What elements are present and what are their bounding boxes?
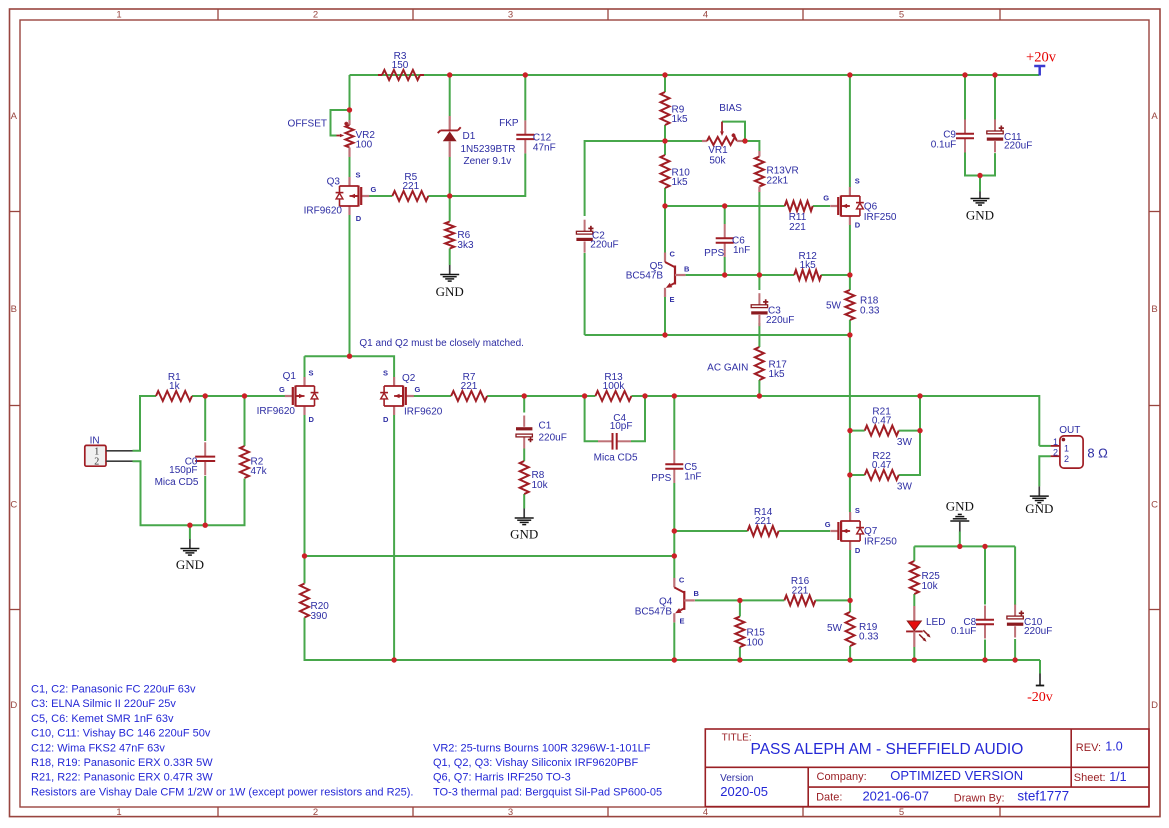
svg-text:3W: 3W — [897, 437, 913, 448]
wire C0 top — [204, 396, 206, 441]
svg-text:10k: 10k — [922, 581, 939, 592]
ground — [1025, 486, 1053, 516]
svg-text:221: 221 — [461, 381, 478, 392]
svg-text:G: G — [825, 520, 831, 529]
svg-text:B: B — [11, 304, 17, 315]
transistor Q1_body — [285, 377, 315, 415]
wire row556 — [305, 555, 675, 557]
wire C2 bottom — [584, 253, 586, 335]
svg-text:100: 100 — [747, 637, 764, 648]
node junction — [847, 657, 852, 662]
wire R9 bottom node y141 — [664, 125, 666, 141]
resistor R13 — [595, 372, 631, 401]
node junction — [757, 272, 762, 277]
diode D1 zener — [438, 116, 516, 167]
node junction — [847, 332, 852, 337]
wire R10 — [664, 141, 666, 155]
svg-text:Q7: Q7 — [864, 526, 878, 537]
svg-text:GND: GND — [436, 284, 464, 299]
wire Q5 collector — [664, 206, 666, 253]
svg-text:Q1, Q2, Q3: Vishay Siliconix I: Q1, Q2, Q3: Vishay Siliconix IRF9620PBF — [433, 757, 638, 769]
wire C8 top — [984, 546, 986, 604]
wire bias loop — [722, 122, 745, 141]
node junction — [992, 72, 997, 77]
svg-text:GND: GND — [176, 557, 204, 572]
wire OUT pin1 — [1039, 445, 1050, 447]
svg-text:0.33: 0.33 — [860, 305, 880, 316]
node junction — [847, 598, 852, 603]
wire OUT pin2 to gnd — [1039, 456, 1050, 486]
wire C6 bottom — [724, 257, 726, 275]
node junction — [582, 393, 587, 398]
wire C10 top — [1014, 546, 1016, 605]
wire R1 to gates — [192, 395, 285, 397]
wire R21 right — [899, 430, 920, 432]
wire R25 top — [913, 546, 915, 561]
svg-text:Resistors are Vishay Dale CFM: Resistors are Vishay Dale CFM 1/2W or 1W… — [31, 786, 413, 798]
svg-text:D: D — [10, 700, 17, 711]
svg-text:5: 5 — [899, 807, 904, 818]
svg-text:Date:: Date: — [816, 792, 842, 804]
wire C9/C11 gnd row — [965, 153, 995, 176]
resistor R6 — [445, 222, 474, 251]
svg-text:1: 1 — [116, 807, 121, 818]
svg-text:GND: GND — [946, 498, 974, 513]
svg-text:10pF: 10pF — [610, 421, 633, 432]
svg-text:150pF: 150pF — [169, 465, 197, 476]
node junction — [672, 393, 677, 398]
node junction — [757, 393, 762, 398]
wire R2 top — [244, 396, 246, 446]
svg-text:C5, C6: Kemet SMR 1nF 63v: C5, C6: Kemet SMR 1nF 63v — [31, 713, 174, 725]
wire C5 top — [673, 396, 675, 450]
svg-text:C: C — [10, 500, 17, 511]
transistor Q3 — [304, 171, 377, 224]
transistor Q6_body — [830, 187, 860, 225]
wire R7 to C1 — [487, 395, 595, 397]
svg-text:2: 2 — [313, 807, 318, 818]
wire R14 to Q7 gate — [779, 530, 831, 532]
transistor Q2 — [380, 369, 443, 424]
svg-text:221: 221 — [792, 586, 809, 597]
resistor R9 — [661, 92, 689, 125]
svg-text:IRF9620: IRF9620 — [404, 407, 443, 418]
wire R15 bottom — [739, 647, 741, 660]
node junction — [187, 523, 192, 528]
svg-text:IN: IN — [90, 436, 100, 447]
node junction — [847, 472, 852, 477]
wire C11 top — [994, 75, 996, 120]
wire LED bottom — [913, 647, 915, 660]
node junction — [662, 203, 667, 208]
svg-text:TITLE:: TITLE: — [722, 733, 752, 744]
capacitor C3 — [751, 293, 768, 326]
svg-text:BC547B: BC547B — [635, 606, 673, 617]
wire node141 to VR1 — [665, 140, 702, 142]
wire C4 right loop — [631, 396, 645, 441]
wire gnd row — [190, 479, 245, 526]
svg-text:1k: 1k — [169, 381, 181, 392]
node junction — [722, 203, 727, 208]
wire -20v drop — [1039, 660, 1041, 674]
svg-text:E: E — [680, 616, 685, 625]
svg-text:Q6, Q7: Harris IRF250 TO-3: Q6, Q7: Harris IRF250 TO-3 — [433, 772, 571, 784]
svg-text:2: 2 — [94, 457, 99, 468]
notes text block — [31, 684, 662, 799]
svg-text:Version: Version — [720, 773, 753, 784]
power flag +20v — [1026, 49, 1057, 75]
svg-text:C: C — [679, 576, 685, 585]
resistor R2 — [240, 446, 268, 478]
node junction — [662, 332, 667, 337]
node junction — [917, 428, 922, 433]
node junction — [203, 523, 208, 528]
svg-text:3: 3 — [508, 9, 513, 20]
svg-text:Mica CD5: Mica CD5 — [155, 477, 199, 488]
svg-text:3W: 3W — [897, 482, 913, 493]
wire R19 bottom — [849, 646, 851, 660]
transistor Q7 — [825, 506, 897, 555]
wire gnd mid stem — [959, 532, 961, 547]
capacitor C2 — [576, 220, 593, 253]
svg-text:PPS: PPS — [704, 248, 724, 259]
resistor R18 — [845, 290, 880, 320]
wire R5 to node — [428, 153, 525, 196]
svg-text:LED: LED — [926, 617, 945, 628]
wire node206 row — [665, 205, 785, 207]
wire R6 top — [449, 196, 451, 222]
svg-text:VR2: 25-turns Bourns 100R 3296: VR2: 25-turns Bourns 100R 3296W-1-101LF — [433, 742, 651, 754]
wire R17 bottom — [758, 380, 760, 396]
capacitor C0 — [195, 442, 215, 475]
wire R22 right — [899, 396, 920, 475]
resistor R3 lead stubs — [378, 74, 382, 76]
svg-text:5W: 5W — [827, 623, 843, 634]
transistor Q2_body — [384, 377, 414, 415]
node junction — [347, 107, 352, 112]
svg-text:8 Ω: 8 Ω — [1087, 445, 1108, 460]
wire R18 bottom — [849, 320, 851, 335]
capacitor C6 — [716, 224, 734, 257]
svg-text:220uF: 220uF — [1004, 141, 1032, 152]
resistor R22 — [865, 451, 899, 480]
svg-text:D: D — [855, 221, 861, 230]
resistor R19 — [846, 612, 879, 646]
svg-text:PPS: PPS — [651, 473, 671, 484]
svg-text:2: 2 — [313, 9, 318, 20]
node junction — [917, 393, 922, 398]
svg-text:B: B — [1151, 304, 1157, 315]
svg-text:C1: C1 — [539, 421, 552, 432]
wire feedback row to OUT — [920, 396, 1039, 446]
transistor Q1 — [257, 369, 319, 424]
svg-text:2: 2 — [1053, 447, 1058, 457]
wire C1 to R8 — [523, 449, 525, 462]
svg-text:22k1: 22k1 — [767, 176, 789, 187]
svg-text:IRF9620: IRF9620 — [257, 406, 296, 417]
wire R21 left — [850, 430, 865, 432]
svg-text:C12: Wima FKS2 47nF 63v: C12: Wima FKS2 47nF 63v — [31, 742, 165, 754]
wire IN pin2 down — [133, 461, 190, 525]
svg-text:S: S — [356, 171, 361, 180]
svg-text:D: D — [855, 546, 861, 555]
wire R20 bottom — [305, 618, 1041, 661]
svg-text:BC547B: BC547B — [626, 271, 664, 282]
ground — [966, 192, 994, 223]
wire R25 branch top row — [914, 545, 1015, 547]
wire C4 left loop — [585, 396, 598, 441]
wire Q4 base row — [695, 599, 785, 601]
svg-text:1k5: 1k5 — [672, 177, 689, 188]
svg-text:2020-05: 2020-05 — [720, 784, 768, 799]
svg-text:S: S — [855, 177, 860, 186]
svg-text:PASS ALEPH AM - SHEFFIELD AUDI: PASS ALEPH AM - SHEFFIELD AUDIO — [751, 741, 1024, 758]
wire bias bottom rail — [585, 334, 850, 336]
node junction — [447, 72, 452, 77]
svg-text:0.1uF: 0.1uF — [951, 626, 977, 637]
svg-text:G: G — [279, 385, 285, 394]
svg-text:Drawn By:: Drawn By: — [954, 793, 1005, 805]
wire C3 bottom to R17 crossing rail — [758, 323, 760, 347]
resistor R10 — [661, 155, 691, 188]
svg-text:B: B — [694, 589, 700, 598]
wire R8 to gnd — [523, 494, 525, 509]
svg-text:50k: 50k — [709, 155, 726, 166]
node junction — [737, 657, 742, 662]
svg-text:IRF9620: IRF9620 — [304, 206, 343, 217]
svg-text:220uF: 220uF — [1024, 626, 1052, 637]
resistor R25 — [910, 561, 940, 594]
svg-text:OUT: OUT — [1059, 425, 1080, 436]
node junction — [1012, 657, 1017, 662]
svg-text:1N5239BTR: 1N5239BTR — [461, 144, 516, 155]
svg-text:G: G — [823, 194, 829, 203]
wire R14 row — [674, 530, 747, 532]
svg-text:1.0: 1.0 — [1105, 740, 1122, 754]
svg-text:B: B — [684, 265, 690, 274]
node junction — [672, 553, 677, 558]
node junction — [523, 72, 528, 77]
ground — [176, 539, 204, 572]
transistor Q6 — [823, 177, 897, 230]
node junction — [203, 393, 208, 398]
svg-text:+20v: +20v — [1026, 49, 1057, 65]
wire R20 top — [304, 556, 306, 584]
wire C0 bottom — [204, 476, 206, 525]
resistor R13VR — [755, 151, 799, 192]
transistor Q4 — [674, 578, 695, 623]
svg-text:BIAS: BIAS — [719, 103, 742, 114]
wire R11 to Q6 gate — [813, 205, 830, 207]
wire Q4 emitter down — [673, 623, 675, 661]
svg-text:0.33: 0.33 — [859, 632, 879, 643]
svg-text:220uF: 220uF — [539, 432, 567, 443]
connector OUT — [1051, 425, 1084, 468]
node junction — [347, 354, 352, 359]
svg-text:IRF250: IRF250 — [864, 212, 897, 223]
capacitor C11 — [987, 119, 1004, 152]
svg-text:D1: D1 — [463, 131, 476, 142]
title block — [705, 729, 1149, 807]
wire Q1 source — [304, 356, 306, 377]
node junction — [847, 428, 852, 433]
svg-text:S: S — [855, 506, 860, 515]
wire Q2 drain — [393, 415, 395, 660]
node junction — [957, 544, 962, 549]
svg-text:stef1777: stef1777 — [1017, 789, 1069, 804]
svg-text:D: D — [1151, 700, 1158, 711]
wire D1 top — [449, 75, 451, 116]
wire Q7 source — [849, 475, 851, 512]
svg-text:220uF: 220uF — [590, 239, 618, 250]
svg-text:1nF: 1nF — [684, 472, 701, 483]
resistor R12 — [794, 251, 821, 280]
node junction — [662, 72, 667, 77]
diode LED — [906, 606, 945, 647]
wire C12 top — [524, 75, 526, 120]
resistor R8 — [520, 461, 549, 494]
wire R14 node to Q4 collector node — [673, 531, 675, 556]
svg-text:FKP: FKP — [499, 118, 519, 129]
node junction — [737, 598, 742, 603]
svg-text:3: 3 — [508, 807, 513, 818]
capacitor C1 — [516, 416, 533, 449]
svg-text:R18, R19: Panasonic ERX 0.33R: R18, R19: Panasonic ERX 0.33R 5W — [31, 757, 213, 769]
svg-text:1/1: 1/1 — [1109, 770, 1126, 784]
svg-text:0.1uF: 0.1uF — [931, 139, 957, 150]
node junction — [847, 72, 852, 77]
wire Q3 drain down to Q1/Q2 sources — [305, 215, 350, 356]
capacitor C9 — [956, 120, 974, 153]
resistor R15 — [735, 617, 765, 649]
wire Q4 collector — [673, 556, 675, 578]
wire D1 bottom — [449, 157, 451, 196]
svg-text:Sheet:: Sheet: — [1074, 772, 1106, 784]
wire R25 to LED — [913, 594, 915, 606]
wire VR1 right to R13VR — [742, 141, 759, 151]
svg-text:GND: GND — [966, 208, 994, 223]
resistor R3 — [382, 51, 420, 80]
wire C10 bottom — [1014, 639, 1016, 660]
wire R10 bottom node y206 — [664, 188, 666, 206]
svg-text:390: 390 — [311, 611, 328, 622]
wire C1 top — [523, 396, 525, 413]
svg-text:221: 221 — [789, 222, 806, 233]
wire R12 right — [821, 274, 850, 276]
resistor R5 — [392, 172, 428, 201]
node junction — [447, 193, 452, 198]
svg-text:C: C — [670, 250, 676, 259]
svg-text:S: S — [309, 369, 314, 378]
svg-text:C10, C11: Vishay BC 146 220uF: C10, C11: Vishay BC 146 220uF 50v — [31, 728, 211, 740]
potentiometer VR1 — [702, 122, 742, 167]
svg-text:D: D — [356, 214, 362, 223]
node junction — [672, 657, 677, 662]
svg-text:2: 2 — [1064, 454, 1069, 464]
wire R9 branch — [664, 75, 666, 92]
capacitor C8 — [976, 606, 994, 639]
node junction — [672, 528, 677, 533]
svg-text:-20v: -20v — [1027, 690, 1053, 705]
ground — [436, 265, 464, 299]
svg-text:G: G — [371, 185, 377, 194]
wire C5 bottom to R14 node — [673, 483, 675, 531]
node junction — [722, 272, 727, 277]
node junction — [242, 393, 247, 398]
wire R13 right — [631, 395, 920, 397]
capacitor C10 — [1007, 605, 1024, 638]
capacitor C12 — [516, 120, 534, 153]
connector IN — [85, 436, 133, 468]
svg-text:C1, C2: Panasonic FC 220uF 63v: C1, C2: Panasonic FC 220uF 63v — [31, 684, 196, 696]
node junction — [977, 173, 982, 178]
wire Q6 source — [849, 75, 851, 187]
svg-text:0.47: 0.47 — [872, 416, 892, 427]
resistor R17 — [755, 347, 787, 380]
svg-text:4: 4 — [703, 807, 708, 818]
svg-text:1: 1 — [1064, 443, 1069, 453]
svg-text:REV:: REV: — [1076, 742, 1101, 754]
svg-text:1: 1 — [116, 9, 121, 20]
wire node141 to C2 — [585, 141, 665, 216]
wire offset loop — [331, 110, 350, 136]
node junction — [847, 272, 852, 277]
svg-text:10k: 10k — [532, 480, 549, 491]
wire — [350, 74, 1040, 76]
svg-text:IRF250: IRF250 — [864, 537, 897, 548]
node junction — [302, 553, 307, 558]
potentiometer VR2 — [337, 120, 376, 157]
svg-text:E: E — [670, 295, 675, 304]
wire gnd stem c9c11 — [979, 176, 981, 192]
wire R13VR bottom — [758, 192, 760, 275]
transistor Q7_body — [830, 512, 860, 550]
svg-text:TO-3 thermal pad: Bergquist Si: TO-3 thermal pad: Bergquist Sil-Pad SP60… — [433, 786, 662, 798]
svg-text:OFFSET: OFFSET — [288, 118, 327, 129]
svg-text:1: 1 — [1053, 437, 1058, 447]
svg-text:Company:: Company: — [817, 771, 867, 783]
resistor R7 — [451, 372, 487, 401]
svg-text:1k5: 1k5 — [769, 369, 786, 380]
svg-text:Zener 9.1v: Zener 9.1v — [464, 156, 512, 167]
wire R15 top — [739, 600, 741, 616]
svg-text:OPTIMIZED VERSION: OPTIMIZED VERSION — [890, 768, 1023, 783]
svg-text:Q3: Q3 — [327, 176, 341, 187]
wire Q6 drain to R12 node — [849, 225, 851, 275]
wire R22 left — [850, 474, 865, 476]
svg-text:3k3: 3k3 — [457, 240, 474, 251]
node junction — [522, 393, 527, 398]
ground — [510, 509, 538, 542]
capacitor C4 — [594, 413, 638, 464]
wire Q6 drain chain down / R21 R22 vertical — [849, 335, 851, 475]
svg-text:220uF: 220uF — [766, 315, 794, 326]
wire R6 to gnd — [449, 249, 451, 266]
svg-text:Q1: Q1 — [283, 371, 297, 382]
wire C6 top — [724, 206, 726, 224]
node junction — [982, 544, 987, 549]
svg-text:5: 5 — [899, 9, 904, 20]
resistor R11 — [785, 201, 813, 233]
svg-text:A: A — [1151, 111, 1158, 122]
resistor R20 — [300, 584, 329, 622]
wire R18 top — [849, 275, 851, 290]
node junction — [912, 657, 917, 662]
svg-text:G: G — [415, 385, 421, 394]
svg-text:100k: 100k — [603, 381, 626, 392]
node junction — [982, 657, 987, 662]
wire Q5 base row — [686, 274, 795, 276]
